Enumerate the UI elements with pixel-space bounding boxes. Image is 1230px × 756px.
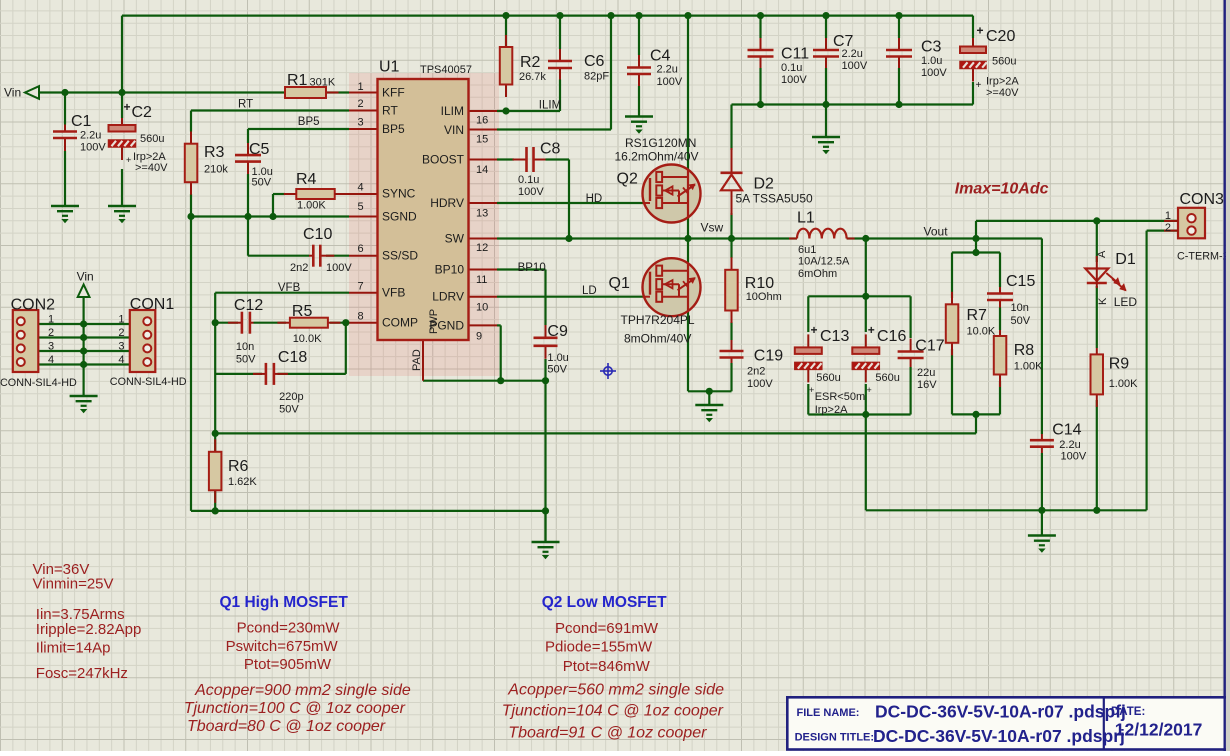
svg-text:100V: 100V xyxy=(80,142,106,154)
svg-text:560u: 560u xyxy=(992,56,1016,68)
svg-text:2: 2 xyxy=(118,327,124,339)
svg-text:100V: 100V xyxy=(326,262,352,274)
svg-text:10A/12.5A: 10A/12.5A xyxy=(798,256,850,268)
svg-text:BOOST: BOOST xyxy=(422,153,465,167)
svg-text:22u: 22u xyxy=(917,367,935,379)
svg-text:C3: C3 xyxy=(921,39,942,56)
svg-text:+: + xyxy=(868,323,875,337)
svg-text:+: + xyxy=(976,80,982,91)
svg-text:VFB: VFB xyxy=(382,286,405,300)
svg-text:4: 4 xyxy=(48,354,54,366)
svg-text:VIN: VIN xyxy=(444,123,464,137)
svg-text:Acopper=900 mm2 single side: Acopper=900 mm2 single side xyxy=(194,682,411,699)
svg-text:Irp>2A: Irp>2A xyxy=(815,404,848,416)
svg-text:2: 2 xyxy=(1165,222,1171,234)
svg-text:Vin: Vin xyxy=(77,270,94,284)
svg-text:Pcond=691mW: Pcond=691mW xyxy=(555,620,659,637)
svg-text:10.0K: 10.0K xyxy=(293,333,322,345)
svg-text:16V: 16V xyxy=(917,379,937,391)
svg-text:FILE NAME:: FILE NAME: xyxy=(797,707,860,719)
svg-text:CONN-SIL4-HD: CONN-SIL4-HD xyxy=(110,376,187,388)
svg-text:C1: C1 xyxy=(71,113,92,130)
svg-text:8mOhm/40V: 8mOhm/40V xyxy=(624,332,691,346)
svg-text:HDRV: HDRV xyxy=(430,196,464,210)
svg-text:HD: HD xyxy=(586,193,603,205)
svg-text:0.1u: 0.1u xyxy=(518,174,539,186)
svg-text:KFF: KFF xyxy=(382,86,405,100)
svg-text:2: 2 xyxy=(48,327,54,339)
svg-text:>=40V: >=40V xyxy=(986,87,1019,99)
svg-text:Tboard=80 C @ 1oz cooper: Tboard=80 C @ 1oz cooper xyxy=(187,718,386,735)
svg-text:C14: C14 xyxy=(1052,422,1081,439)
svg-text:50V: 50V xyxy=(252,177,272,189)
svg-text:VFB: VFB xyxy=(278,282,301,294)
svg-text:R2: R2 xyxy=(520,54,541,71)
svg-text:D1: D1 xyxy=(1115,251,1136,268)
svg-text:560u: 560u xyxy=(140,133,164,145)
svg-text:C18: C18 xyxy=(278,349,307,366)
svg-text:R9: R9 xyxy=(1109,356,1130,373)
svg-text:TPS40057: TPS40057 xyxy=(420,64,472,76)
svg-text:1.0u: 1.0u xyxy=(547,352,568,364)
svg-text:560u: 560u xyxy=(816,372,840,384)
svg-text:1: 1 xyxy=(358,81,364,93)
svg-text:1.62K: 1.62K xyxy=(228,476,257,488)
svg-text:100V: 100V xyxy=(921,67,947,79)
svg-text:C20: C20 xyxy=(986,28,1015,45)
svg-text:210k: 210k xyxy=(204,164,228,176)
svg-text:26.7k: 26.7k xyxy=(519,71,546,83)
svg-text:16.2mOhm/40V: 16.2mOhm/40V xyxy=(615,150,699,164)
svg-text:BP5: BP5 xyxy=(298,116,320,128)
svg-text:RT: RT xyxy=(238,99,253,111)
svg-text:U1: U1 xyxy=(379,59,400,76)
svg-text:C9: C9 xyxy=(547,323,568,340)
svg-text:LED: LED xyxy=(1114,295,1138,309)
svg-text:Imax=10Adc: Imax=10Adc xyxy=(955,181,1049,198)
svg-text:11: 11 xyxy=(476,274,487,286)
svg-text:C12: C12 xyxy=(234,297,263,314)
svg-text:+: + xyxy=(811,323,818,337)
svg-text:1: 1 xyxy=(118,314,124,326)
svg-text:Pswitch=675mW: Pswitch=675mW xyxy=(226,638,339,655)
svg-text:DATE:: DATE: xyxy=(1111,706,1145,718)
svg-text:7: 7 xyxy=(358,281,364,293)
svg-text:SYNC: SYNC xyxy=(382,187,416,201)
svg-text:C11: C11 xyxy=(781,46,809,63)
svg-text:Q1 High MOSFET: Q1 High MOSFET xyxy=(220,594,349,611)
svg-text:K: K xyxy=(1097,297,1109,305)
svg-text:0.1u: 0.1u xyxy=(781,62,802,74)
svg-text:Vinmin=25V: Vinmin=25V xyxy=(33,576,114,593)
svg-text:L1: L1 xyxy=(797,210,815,227)
svg-text:2.2u: 2.2u xyxy=(657,64,678,76)
svg-text:BP10: BP10 xyxy=(435,263,465,277)
svg-text:Q1: Q1 xyxy=(609,275,630,292)
svg-text:RS1G120MN: RS1G120MN xyxy=(625,136,696,150)
svg-text:LDRV: LDRV xyxy=(432,290,464,304)
svg-text:+: + xyxy=(867,385,872,395)
svg-text:+: + xyxy=(977,24,984,38)
svg-text:100V: 100V xyxy=(1061,451,1087,463)
svg-text:+: + xyxy=(126,155,131,165)
svg-text:SS/SD: SS/SD xyxy=(382,249,418,263)
svg-text:10Ohm: 10Ohm xyxy=(746,291,782,303)
svg-text:Pdiode=155mW: Pdiode=155mW xyxy=(545,639,653,656)
svg-text:C10: C10 xyxy=(303,226,332,243)
svg-text:R3: R3 xyxy=(204,144,225,161)
svg-text:4: 4 xyxy=(118,354,124,366)
svg-text:100V: 100V xyxy=(657,76,683,88)
svg-text:1: 1 xyxy=(1165,210,1171,222)
svg-text:560u: 560u xyxy=(875,372,899,384)
svg-text:3: 3 xyxy=(358,117,364,129)
svg-text:Acopper=560 mm2 single side: Acopper=560 mm2 single side xyxy=(507,682,724,699)
svg-text:301K: 301K xyxy=(310,77,336,89)
svg-text:50V: 50V xyxy=(236,354,256,366)
svg-text:C8: C8 xyxy=(540,141,561,158)
svg-text:CON2: CON2 xyxy=(11,297,56,314)
svg-text:C2: C2 xyxy=(132,104,153,121)
svg-text:1.00K: 1.00K xyxy=(297,200,326,212)
svg-text:RT: RT xyxy=(382,104,398,118)
svg-text:3: 3 xyxy=(118,341,124,353)
svg-text:10.0K: 10.0K xyxy=(967,326,996,338)
svg-text:A: A xyxy=(1096,250,1108,258)
svg-text:6: 6 xyxy=(358,243,364,255)
svg-text:50V: 50V xyxy=(547,364,567,376)
svg-text:+: + xyxy=(809,385,814,395)
svg-text:+: + xyxy=(124,100,131,114)
svg-text:ESR<50m: ESR<50m xyxy=(815,391,865,403)
svg-text:Tboard=91 C @ 1oz cooper: Tboard=91 C @ 1oz cooper xyxy=(508,725,707,742)
svg-text:PWP: PWP xyxy=(428,309,440,334)
svg-text:BP5: BP5 xyxy=(382,122,405,136)
svg-text:50V: 50V xyxy=(279,404,299,416)
svg-text:Irp>2A: Irp>2A xyxy=(986,76,1019,88)
svg-text:2: 2 xyxy=(358,98,364,110)
svg-text:LD: LD xyxy=(582,285,597,297)
svg-text:DESIGN TITLE:: DESIGN TITLE: xyxy=(795,732,874,744)
svg-text:C15: C15 xyxy=(1006,273,1035,290)
svg-text:C6: C6 xyxy=(584,53,605,70)
svg-text:100V: 100V xyxy=(842,60,868,72)
svg-text:Vout: Vout xyxy=(924,225,949,239)
svg-text:C13: C13 xyxy=(820,328,849,345)
svg-text:6u1: 6u1 xyxy=(798,244,816,256)
svg-text:1.0u: 1.0u xyxy=(921,55,942,67)
svg-text:1: 1 xyxy=(48,314,54,326)
svg-text:CON1: CON1 xyxy=(130,296,175,313)
svg-text:100V: 100V xyxy=(781,74,807,86)
svg-text:10: 10 xyxy=(476,302,488,314)
svg-text:14: 14 xyxy=(476,164,488,176)
svg-text:R8: R8 xyxy=(1014,342,1035,359)
svg-text:Vin: Vin xyxy=(4,86,21,100)
svg-text:15: 15 xyxy=(476,134,488,146)
svg-text:Q2: Q2 xyxy=(617,171,638,188)
svg-text:Tjunction=100 C @ 1oz cooper: Tjunction=100 C @ 1oz cooper xyxy=(184,700,406,717)
svg-text:3: 3 xyxy=(48,341,54,353)
svg-text:1.00K: 1.00K xyxy=(1109,378,1138,390)
svg-text:C5: C5 xyxy=(249,141,270,158)
svg-text:2n2: 2n2 xyxy=(747,366,765,378)
svg-text:CON3: CON3 xyxy=(1180,191,1225,208)
svg-text:C-TERM-2: C-TERM-2 xyxy=(1177,251,1229,263)
svg-text:D2: D2 xyxy=(754,176,775,193)
svg-text:Ptot=846mW: Ptot=846mW xyxy=(563,658,651,675)
svg-text:C19: C19 xyxy=(754,348,783,365)
svg-text:Fosc=247kHz: Fosc=247kHz xyxy=(36,665,128,682)
svg-text:2n2: 2n2 xyxy=(290,262,308,274)
svg-text:2.2u: 2.2u xyxy=(1059,439,1080,451)
svg-text:DC-DC-36V-5V-10A-r07 .pdspfj: DC-DC-36V-5V-10A-r07 .pdspfj xyxy=(875,702,1126,722)
svg-text:4: 4 xyxy=(358,182,364,194)
svg-text:10n: 10n xyxy=(236,341,254,353)
svg-text:Ptot=905mW: Ptot=905mW xyxy=(244,656,332,673)
svg-text:Vsw: Vsw xyxy=(701,221,724,235)
svg-text:PAD: PAD xyxy=(411,349,423,371)
svg-text:R5: R5 xyxy=(292,303,313,320)
svg-text:1.00K: 1.00K xyxy=(1014,361,1043,373)
svg-text:10n: 10n xyxy=(1011,302,1029,314)
svg-text:9: 9 xyxy=(476,331,482,343)
svg-text:100V: 100V xyxy=(747,378,773,390)
svg-text:50V: 50V xyxy=(1011,315,1031,327)
svg-text:2.2u: 2.2u xyxy=(80,130,101,142)
svg-text:R6: R6 xyxy=(228,458,249,475)
svg-text:ILIM: ILIM xyxy=(441,104,464,118)
svg-text:6mOhm: 6mOhm xyxy=(798,268,837,280)
svg-text:5A TSSA5U50: 5A TSSA5U50 xyxy=(736,192,813,206)
svg-text:SW: SW xyxy=(445,232,465,246)
svg-text:2.2u: 2.2u xyxy=(842,48,863,60)
svg-text:R10: R10 xyxy=(745,275,774,292)
svg-text:Ilimit=14Ap: Ilimit=14Ap xyxy=(36,640,111,657)
svg-text:ILIM: ILIM xyxy=(539,100,561,112)
svg-text:Iripple=2.82App: Iripple=2.82App xyxy=(36,621,142,638)
svg-text:8: 8 xyxy=(358,311,364,323)
svg-text:12: 12 xyxy=(476,242,488,254)
svg-text:16: 16 xyxy=(476,115,488,127)
svg-text:220p: 220p xyxy=(279,391,303,403)
svg-text:C17: C17 xyxy=(915,338,944,355)
svg-text:SGND: SGND xyxy=(382,210,417,224)
svg-text:Pcond=230mW: Pcond=230mW xyxy=(237,620,341,637)
svg-text:>=40V: >=40V xyxy=(135,162,168,174)
svg-text:R7: R7 xyxy=(967,307,988,324)
svg-text:TPH7R204PL: TPH7R204PL xyxy=(621,313,695,327)
svg-text:C16: C16 xyxy=(877,328,906,345)
svg-text:5: 5 xyxy=(358,201,364,213)
svg-text:Q2 Low MOSFET: Q2 Low MOSFET xyxy=(542,594,667,611)
svg-text:100V: 100V xyxy=(518,186,544,198)
svg-text:12/12/2017: 12/12/2017 xyxy=(1115,720,1203,740)
svg-text:13: 13 xyxy=(476,208,488,220)
svg-text:C4: C4 xyxy=(650,48,671,65)
svg-text:COMP: COMP xyxy=(382,316,418,330)
svg-text:DC-DC-36V-5V-10A-r07 .pdsprj: DC-DC-36V-5V-10A-r07 .pdsprj xyxy=(873,726,1125,746)
svg-text:R1: R1 xyxy=(287,72,308,89)
svg-text:82pF: 82pF xyxy=(584,71,609,83)
svg-text:R4: R4 xyxy=(296,171,317,188)
svg-text:BP10: BP10 xyxy=(518,262,546,274)
svg-text:CONN-SIL4-HD: CONN-SIL4-HD xyxy=(0,377,77,389)
svg-text:Tjunction=104 C @ 1oz cooper: Tjunction=104 C @ 1oz cooper xyxy=(502,703,724,720)
